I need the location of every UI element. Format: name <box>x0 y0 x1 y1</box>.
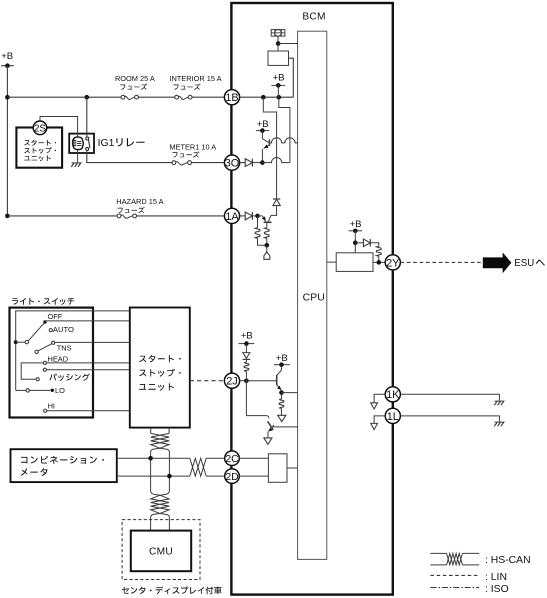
svg-text:AUTO: AUTO <box>53 325 74 334</box>
svg-text:1A: 1A <box>225 211 239 223</box>
label HAZARD fuse jp <box>118 207 145 213</box>
switch LO blade <box>16 389 26 391</box>
node junction relay feed <box>85 95 90 100</box>
wire oscillator stem <box>277 36 279 51</box>
block output driver box <box>336 253 373 272</box>
wire branchB down to 3O net <box>279 97 290 162</box>
svg-text:+B: +B <box>241 331 253 342</box>
svg-text:: ISO: : ISO <box>485 584 509 595</box>
wire R2 to node <box>266 238 268 245</box>
svg-text:ESU: ESU <box>514 258 534 269</box>
label center display <box>122 586 222 594</box>
wire node to ground bullet <box>266 245 268 252</box>
arrow to ESU <box>483 252 512 273</box>
wire 1A inside <box>240 215 246 217</box>
wire 2D to transceiver <box>239 475 268 477</box>
svg-text:IG1: IG1 <box>98 138 115 149</box>
wire relay switch to meter fuse <box>87 153 173 163</box>
svg-text:+B: +B <box>276 353 288 364</box>
diode D3 at 1A <box>245 212 252 220</box>
diode D2 vertical <box>273 198 280 200</box>
+B terminal above 1B branch <box>271 84 285 86</box>
wire 3O node to branchB with crossover <box>262 158 290 163</box>
diode D1 at 3O <box>245 159 252 167</box>
transistor Q2 <box>264 221 272 223</box>
resistor R2 base <box>266 222 268 227</box>
unit 2 text <box>139 355 181 362</box>
connector 1L <box>385 408 400 423</box>
svg-text:: HS-CAN: : HS-CAN <box>485 555 531 566</box>
wire Q1 base to CPU with crossovers <box>269 138 297 143</box>
legend ISO line <box>430 587 479 589</box>
wire transceiver to CPU <box>287 467 298 469</box>
block regulator box <box>268 51 289 65</box>
wire branchA down to diode <box>263 97 276 199</box>
svg-text:1K: 1K <box>386 389 400 401</box>
connector 1B <box>224 90 239 105</box>
svg-text:: LIN: : LIN <box>485 572 507 583</box>
wire Q3 node down <box>281 393 283 399</box>
wire CAN L right <box>206 475 224 477</box>
arrow open 1K <box>371 403 378 409</box>
twisted pair below unit <box>150 428 152 434</box>
ground 1K <box>494 401 504 405</box>
legend LIN line <box>430 574 479 576</box>
svg-text:HI: HI <box>48 402 55 411</box>
contact HI <box>44 409 47 412</box>
ground 1L <box>494 422 504 426</box>
arrow open 1L <box>371 423 378 429</box>
BCM module box <box>231 3 392 595</box>
wire HEAD bracket to passing pivot <box>21 363 43 379</box>
wire TNS <box>55 341 130 343</box>
transistor Q4 <box>268 421 274 430</box>
ground bullet 1A <box>264 252 270 259</box>
label METER1 fuse jp <box>173 151 200 157</box>
block CAN transceiver <box>268 454 287 483</box>
connector 2S <box>33 121 47 135</box>
relay coil <box>73 137 84 150</box>
wire OFF <box>45 320 130 322</box>
light switch box <box>10 308 94 418</box>
wire 1B row left <box>7 96 121 98</box>
twisted pair horizontal <box>190 458 206 476</box>
contact TNS <box>52 341 55 344</box>
svg-text:INTERIOR 15 A: INTERIOR 15 A <box>169 74 221 83</box>
node R3 junction <box>377 260 382 265</box>
wire 3O diode to node <box>252 162 262 164</box>
node common junction <box>14 340 18 344</box>
svg-text:3O: 3O <box>225 157 240 169</box>
switch pole TNS blade <box>35 350 38 353</box>
wire passing <box>47 369 130 371</box>
connector 3O <box>224 155 239 170</box>
twisted pair to CMU <box>151 495 169 513</box>
wire 2J to node <box>240 380 247 382</box>
+B terminal at Q3 <box>274 364 290 366</box>
label passing jp <box>49 374 89 381</box>
wire +B vertical rail <box>6 66 8 216</box>
wire HI <box>47 410 130 412</box>
wire 3O inside <box>240 162 246 164</box>
legend HS-CAN symbol <box>430 552 446 554</box>
wire 1B row mid <box>138 96 174 98</box>
wire R4 to node <box>245 371 247 380</box>
oscillator symbol <box>271 30 285 36</box>
wire dashed LIN to ESU <box>400 261 482 263</box>
label light switch <box>12 298 74 305</box>
switch pole 1 blade <box>16 341 25 343</box>
wire 1L stub inside <box>374 416 385 423</box>
svg-text:LO: LO <box>55 386 65 395</box>
contact HEAD <box>43 361 46 364</box>
svg-text:+B: +B <box>257 119 269 130</box>
contact AUTO <box>49 329 52 332</box>
svg-text:HAZARD 15 A: HAZARD 15 A <box>116 197 163 206</box>
relay switch <box>86 134 88 138</box>
node Q3 emitter junction <box>279 390 284 395</box>
unit start-stop box 2 <box>130 308 190 428</box>
connector 1A <box>224 208 239 223</box>
wire R3 to output node <box>378 256 380 262</box>
wire node to Q3 base <box>246 380 276 382</box>
connector 1K <box>385 387 400 402</box>
wire CAN L left <box>117 475 190 477</box>
CPU box <box>298 31 327 559</box>
unit start-stop box <box>16 128 62 168</box>
wire R1 to node <box>258 238 267 245</box>
label ROOM fuse jp <box>120 84 147 90</box>
node resistor join <box>265 243 270 248</box>
wire relay coil to 2S <box>40 117 78 137</box>
wire D4 to resistor <box>370 243 379 247</box>
dashed option box <box>122 520 200 580</box>
pair open bubble <box>151 448 160 495</box>
wire 3O row <box>192 162 225 164</box>
unit start-stop text <box>24 140 56 146</box>
+B battery terminal top-left <box>1 65 14 67</box>
wire switch common rail <box>16 311 130 391</box>
wire driver to 2Y <box>373 261 385 263</box>
wire 2C to transceiver <box>239 457 268 459</box>
svg-text:2D: 2D <box>225 472 238 483</box>
connector 2J <box>224 373 239 388</box>
wire 1K stub inside <box>374 394 385 402</box>
wire 2J node to Q4 base <box>246 381 269 418</box>
+B terminal at 3O transistor <box>256 130 269 132</box>
wire D2 to Q2 collector <box>268 206 276 222</box>
node CAN L tap <box>167 474 172 479</box>
relay IG1 box <box>69 134 94 153</box>
ground relay coil <box>71 163 81 167</box>
node 1B branch B <box>277 95 282 100</box>
wire dashed unit to 2J <box>190 380 225 382</box>
svg-text:+B: +B <box>1 51 13 62</box>
node 1A junction <box>255 214 260 219</box>
svg-text:HEAD: HEAD <box>48 354 69 363</box>
wire 1B inside <box>240 96 294 98</box>
node 2J junction <box>244 379 249 384</box>
+B terminal at 2J <box>239 343 255 345</box>
transistor Q3 <box>281 365 283 370</box>
wire Q4 collector to CPU <box>273 426 298 428</box>
wire to diode D4 <box>355 242 363 244</box>
diode D4 <box>363 239 370 246</box>
connector 2D <box>225 469 240 484</box>
node CAN H tap <box>148 456 153 461</box>
svg-text:METER1 10 A: METER1 10 A <box>169 142 216 151</box>
node diode branch <box>353 241 358 246</box>
node osc junction <box>276 41 281 46</box>
wire 1A diode to node <box>252 215 257 217</box>
svg-text:OFF: OFF <box>48 312 63 321</box>
diode D5 vertical <box>245 344 247 353</box>
svg-text:ROOM 25 A: ROOM 25 A <box>115 74 155 83</box>
node 3O emitter junction <box>260 160 265 165</box>
fuse METER1 10A <box>172 161 176 165</box>
wire 1L to ground <box>400 416 499 422</box>
svg-text:2C: 2C <box>225 454 239 465</box>
resistor R4 <box>244 362 249 371</box>
transistor Q1 <box>261 131 263 139</box>
CMU box <box>131 531 191 572</box>
svg-text:2S: 2S <box>34 123 47 134</box>
wire hazard row <box>7 215 117 217</box>
fuse ROOM 25A <box>121 95 125 99</box>
wire Q3 to CPU <box>282 392 298 394</box>
svg-text:2Y: 2Y <box>386 257 400 269</box>
pair open bubble 2 <box>151 514 160 531</box>
wire regulator to 1B wire <box>289 58 294 97</box>
contact passing out <box>43 368 46 371</box>
svg-text:2J: 2J <box>226 376 238 388</box>
svg-text:TNS: TNS <box>57 344 72 353</box>
connector 2C <box>225 451 240 466</box>
wire osc to CPU <box>278 43 297 45</box>
meter box text <box>21 456 104 464</box>
contact passing pivot <box>36 378 39 381</box>
+B terminal at 2Y <box>349 230 363 232</box>
wire 1B row right <box>192 96 224 98</box>
node 1B branch A <box>261 95 266 100</box>
wire +B to relay block <box>354 231 356 253</box>
wire relay feed drop <box>86 97 88 133</box>
ground triangle Q4 <box>264 438 272 444</box>
svg-text:CPU: CPU <box>303 293 325 304</box>
ground triangle Q3 <box>278 415 286 421</box>
wire 1K to ground <box>400 394 499 400</box>
fuse HAZARD 15A <box>117 214 121 218</box>
svg-text:BCM: BCM <box>302 12 325 23</box>
wire CAN H right <box>206 457 224 459</box>
label INTERIOR fuse jp <box>174 84 201 90</box>
wire HEAD <box>47 362 130 364</box>
svg-text:CMU: CMU <box>149 546 173 557</box>
wire R5 to ground <box>281 409 283 416</box>
resistor R3 <box>377 246 382 256</box>
meter box <box>11 449 117 482</box>
wire CPU to driver <box>327 261 336 263</box>
connector 2Y <box>385 255 400 270</box>
node junction +B/1B row <box>5 95 10 100</box>
fuse INTERIOR 15A <box>175 95 179 99</box>
svg-text:1B: 1B <box>225 92 238 104</box>
svg-text:+B: +B <box>350 219 362 230</box>
svg-text:+B: +B <box>273 73 285 84</box>
wire relay coil ground stem <box>77 150 79 162</box>
svg-text:1L: 1L <box>387 411 399 423</box>
resistor R1 pulldown <box>257 216 259 228</box>
wire CAN H left <box>117 457 190 459</box>
resistor R5 <box>279 399 284 409</box>
node junction +B/hazard row <box>5 214 10 219</box>
